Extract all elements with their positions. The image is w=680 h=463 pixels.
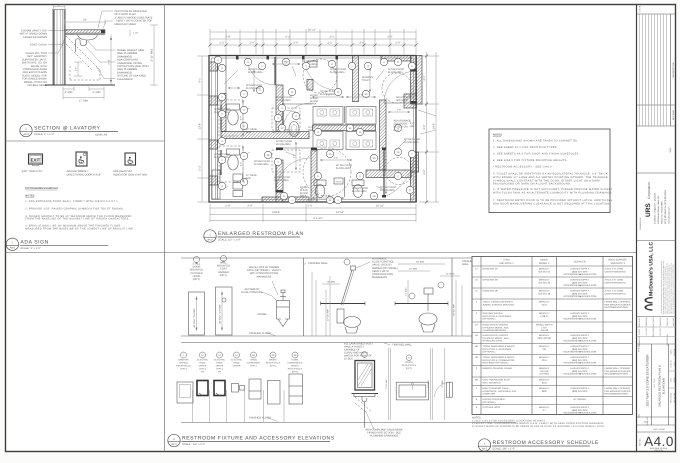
svg-text:O-SITE: O-SITE	[638, 328, 641, 335]
svg-text:ALUMINUM BRUSHED: ALUMINUM BRUSHED	[483, 329, 507, 332]
svg-text:DRYER: DRYER	[199, 365, 207, 368]
svg-text:BRADLEY: BRADLEY	[539, 334, 550, 337]
svg-text:42" GRAB: 42" GRAB	[246, 174, 257, 177]
extra bubbles	[214, 56, 221, 63]
svg-text:FLOOR AREA: FLOOR AREA	[388, 71, 403, 74]
svg-text:(848) 216-3376: (848) 216-3376	[572, 390, 588, 393]
svg-text:13'-8": 13'-8"	[199, 123, 202, 130]
svg-text:DISPENSER &: DISPENSER &	[288, 362, 303, 365]
svg-text:• RESTROOM ACCESSORY - SEE 2/A: • RESTROOM ACCESSORY - SEE 2/A4.0	[493, 166, 552, 169]
svg-text:SEAL: SEAL	[669, 147, 672, 153]
svg-text:FLOOR AREA: FLOOR AREA	[404, 141, 419, 144]
svg-text:10'-11": 10'-11"	[376, 205, 384, 208]
band2 floor line	[181, 422, 516, 424]
band2 ceiling line	[181, 342, 630, 344]
svg-text:33"-36" AFF: 33"-36" AFF	[453, 303, 456, 315]
svg-text:GRAB BAR 18": GRAB BAR 18"	[483, 289, 499, 292]
svg-text:DESCRIPTION: DESCRIPTION	[672, 62, 675, 77]
svg-text:SANITARY: SANITARY	[178, 359, 189, 362]
band1 toilet dims	[329, 276, 331, 336]
toilet side elevation	[321, 303, 366, 305]
svg-text:(OPT.): (OPT.)	[199, 368, 206, 371]
svg-text:2"X1/4 2'-6" LONG: 2"X1/4 2'-6" LONG	[605, 278, 624, 281]
svg-text:FRAME WALL OPENING: FRAME WALL OPENING	[605, 300, 631, 303]
svg-text:PREPARED BY: PREPARED BY	[639, 217, 642, 230]
svg-text:A1.0: A1.0	[394, 129, 400, 132]
svg-text:MANAGERS: MANAGERS	[372, 276, 387, 279]
svg-text:HC/TD: HC/TD	[336, 180, 342, 183]
svg-text:16 1/2": 16 1/2"	[308, 126, 315, 129]
svg-text:2"X1/4 2'-6" LONG: 2"X1/4 2'-6" LONG	[605, 289, 624, 292]
svg-text:ELECTRIC: ELECTRIC	[214, 359, 225, 362]
detail 1: enlarged restroom plan	[197, 29, 439, 243]
svg-text:812-001-36: 812-001-36	[538, 281, 550, 284]
section/ada divider	[5, 140, 165, 142]
wall vertical right of lavs	[380, 100, 387, 170]
waste receptacle label	[406, 355, 412, 361]
lavatory counter south 2	[346, 132, 376, 150]
svg-text:FLOOR AREA: FLOOR AREA	[274, 179, 289, 182]
ada indicator sign	[125, 153, 136, 165]
svg-text:FLOOR AREA: FLOOR AREA	[330, 71, 345, 74]
band1 ceiling line	[181, 257, 630, 259]
svg-text:EFFICIENT MODEL, ADA,: EFFICIENT MODEL, ADA,	[483, 326, 510, 329]
svg-text:TOILET TISSUE DISPENSER,: TOILET TISSUE DISPENSER,	[483, 300, 514, 303]
svg-text:SECTION @ LAVATORY: SECTION @ LAVATORY	[34, 126, 100, 132]
svg-text:BRADLEY: BRADLEY	[539, 289, 550, 292]
svg-text:3'-1": 3'-1"	[329, 36, 334, 39]
svg-text:2"X1/4 2'-6" LONG: 2"X1/4 2'-6" LONG	[605, 267, 624, 270]
svg-text:TOWEL: TOWEL	[291, 359, 300, 362]
exit sign	[29, 154, 43, 164]
svg-text:4A: 4A	[475, 334, 478, 337]
plan notes box	[489, 129, 613, 213]
svg-text:2'-8": 2'-8"	[334, 157, 339, 160]
svg-text:DRYER: DRYER	[216, 365, 224, 368]
toilet bottom 1	[314, 180, 326, 186]
wall vertical stall left upper	[276, 85, 283, 132]
dashed clear rect left top	[219, 100, 243, 136]
svg-text:FINISHED FLOOR: FINISHED FLOOR	[249, 332, 271, 335]
schedule row item 11	[472, 276, 633, 278]
svg-text:AREA: AREA	[300, 195, 307, 198]
svg-text:INDICATOR SIGN 6"X6" MIN: INDICATOR SIGN 6"X6" MIN	[113, 173, 147, 176]
svg-text:TOWEL DISPENSER & WASTE: TOWEL DISPENSER & WASTE	[483, 345, 516, 348]
svg-text:RECEPTACLE, RECESSED: RECEPTACLE, RECESSED	[483, 315, 512, 318]
svg-text:FLOOR AREA: FLOOR AREA	[352, 190, 367, 193]
svg-text:2'-2": 2'-2"	[219, 42, 224, 45]
band2 accessory group	[181, 352, 187, 358]
svg-text:AND NOTE 3: AND NOTE 3	[611, 262, 626, 265]
svg-text:(848) 216-3376: (848) 216-3376	[572, 348, 588, 351]
svg-text:(24"X36"): (24"X36")	[539, 373, 549, 376]
detail 2: restroom accessory schedule	[472, 257, 633, 452]
svg-text:MODEL #: MODEL #	[539, 262, 550, 265]
svg-text:BRADLEY: BRADLEY	[539, 378, 550, 381]
svg-text:NEW PROJ: NEW PROJ	[652, 327, 655, 337]
svg-text:2'-6": 2'-6"	[395, 42, 400, 45]
svg-text:FINISHED WALL: FINISHED WALL	[392, 344, 412, 347]
svg-text:4'-1": 4'-1"	[423, 75, 426, 80]
top dim 6 inch	[53, 6, 65, 8]
svg-text:NOTES: NOTES	[493, 134, 502, 137]
stall door clothes hook elevation	[194, 257, 200, 263]
svg-text:3'-0": 3'-0"	[383, 174, 386, 179]
svg-text:9632: 9632	[542, 390, 548, 393]
left wall inner face	[215, 56, 217, 199]
svg-text:COAT HOOK/DOOR STOP,: COAT HOOK/DOOR STOP,	[483, 378, 511, 381]
title section @ lavatory	[20, 124, 118, 136]
svg-text:A4.0: A4.0	[23, 133, 29, 136]
svg-text:HAND DRYER, ENERGY: HAND DRYER, ENERGY	[483, 334, 509, 337]
svg-text:A40.DWG: A40.DWG	[672, 317, 675, 326]
plan keynote bubbles	[218, 64, 225, 71]
svg-text:URINAL: URINAL	[257, 313, 267, 316]
svg-text:PLUMBING DRAWINGS: PLUMBING DRAWINGS	[370, 435, 399, 438]
svg-text:BY OWNER: BY OWNER	[574, 398, 587, 401]
svg-text:HUGHES SUPPLY: HUGHES SUPPLY	[570, 289, 589, 292]
svg-text:2'-8": 2'-8"	[326, 94, 331, 97]
svg-text:FLOOR AREA: FLOOR AREA	[276, 99, 291, 102]
svg-text:812-001-42: 812-001-42	[538, 270, 550, 273]
svg-text:(848) 216-3376: (848) 216-3376	[572, 359, 588, 362]
svg-text:JUMBO, SURFACE MOUNTED: JUMBO, SURFACE MOUNTED	[483, 303, 515, 306]
svg-text:Clifton, NJ 07013-3888: Clifton, NJ 07013-3888	[661, 201, 664, 224]
door arc bottom-left	[283, 103, 310, 130]
svg-text:1. ADA ENTRANCE DOOR SHALL CO: 1. ADA ENTRANCE DOOR SHALL COMPLY WITH 1…	[25, 200, 118, 203]
door jamb marks	[236, 56, 239, 60]
svg-text:DIAPER CONTAINER: DIAPER CONTAINER	[483, 398, 505, 401]
svg-text:(OPT.): (OPT.)	[193, 278, 201, 281]
ada knee clearance dashed	[66, 36, 100, 70]
svg-text:42" MIN: 42" MIN	[409, 268, 417, 271]
title enlarged restroom plan	[204, 230, 304, 242]
svg-text:A4.0: A4.0	[644, 434, 674, 449]
svg-text:(OPT.): (OPT.)	[292, 371, 299, 374]
band2 dims between accessories	[192, 390, 194, 422]
svg-text:HAND: HAND	[216, 362, 223, 365]
svg-text:Corporation: Corporation	[647, 182, 651, 199]
wall hatch central band right	[313, 125, 376, 131]
svg-text:HAND: HAND	[199, 362, 206, 365]
leader lines	[224, 70, 238, 84]
svg-text:60" DIA CLEAR: 60" DIA CLEAR	[336, 164, 352, 167]
svg-text:A4.0: A4.0	[482, 447, 488, 450]
waste receptacle recessed box	[396, 382, 428, 400]
svg-text:PICTOGRAMS EXAMPLES: PICTOGRAMS EXAMPLES	[25, 187, 58, 190]
svg-text:FLOOR: FLOOR	[300, 192, 308, 195]
svg-text:(OPT.): (OPT.)	[216, 368, 223, 371]
svg-text:2'-8": 2'-8"	[225, 205, 230, 208]
svg-text:ENLARGED RESTROOM PLAN: ENLARGED RESTROOM PLAN	[218, 231, 304, 237]
svg-text:PER MANUFACTURER'S: PER MANUFACTURER'S	[605, 370, 631, 373]
svg-text:3'-2": 3'-2"	[423, 124, 426, 129]
svg-text:2. PROVIDE 1/32" RAISED GRAPH: 2. PROVIDE 1/32" RAISED GRAPHIC SYMBOLS …	[25, 208, 124, 211]
svg-text:MIRROR, CHANNEL FRAME: MIRROR, CHANNEL FRAME	[483, 367, 513, 370]
svg-text:ACCESSORIES■HUGHES.COM: ACCESSORIES■HUGHES.COM	[563, 295, 596, 298]
toilet center room	[289, 122, 299, 137]
svg-text:SITE NO.: SITE NO.	[638, 343, 641, 352]
svg-text:BRADLEY: BRADLEY	[539, 367, 550, 370]
toilet left 2	[227, 149, 240, 155]
svg-text:RESTROOM FIXTURE AND ACCESS: RESTROOM FIXTURE AND ACCESSORY ELEVATION…	[182, 436, 335, 442]
svg-text:42" GRAB: 42" GRAB	[246, 128, 257, 131]
bottom dims	[63, 88, 74, 90]
revision table	[637, 13, 677, 15]
svg-text:FINISHED FLOOR: FINISHED FLOOR	[249, 417, 271, 420]
svg-text:10-01-16: 10-01-16	[670, 360, 673, 367]
svg-text:CAD FILE: CAD FILE	[666, 317, 669, 326]
wall hatch right	[411, 56, 417, 105]
dashed circle top-center	[303, 59, 337, 93]
svg-text:18"X48"CLEAR: 18"X48"CLEAR	[330, 68, 346, 71]
svg-text:24": 24"	[83, 19, 87, 22]
svg-text:1'-9": 1'-9"	[397, 109, 402, 112]
svg-text:5424: 5424	[542, 303, 548, 306]
schedule row item 10	[472, 287, 633, 289]
svg-text:WASTE: WASTE	[291, 365, 299, 368]
wall vertical top center	[353, 56, 359, 102]
svg-text:HAND: HAND	[233, 362, 240, 365]
hand dryer M dark box	[214, 381, 225, 396]
svg-text:27" MIN: 27" MIN	[441, 380, 444, 388]
svg-text:HORIZONTAL, RECESSED, ADA: HORIZONTAL, RECESSED, ADA	[483, 390, 517, 393]
band1 divider wall line	[303, 258, 305, 336]
svg-text:CENTER MOUNTED: CENTER MOUNTED	[605, 292, 627, 295]
dashed circle bottom-right	[386, 158, 413, 185]
svg-text:FLOOR: FLOOR	[310, 100, 318, 103]
svg-text:011-0137: 011-0137	[659, 328, 662, 335]
ada entrance sign	[76, 152, 87, 166]
band1 right toilet elevation	[395, 303, 448, 305]
svg-text:TOWEL DISPENSER & WASTE: TOWEL DISPENSER & WASTE	[483, 356, 516, 359]
schedule row item 4B	[472, 354, 633, 356]
svg-text:McDonald's USA, LLC: McDonald's USA, LLC	[649, 241, 655, 296]
svg-text:MEASURED FROM THE BASELINE OF: MEASURED FROM THE BASELINE OF THE LOWEST…	[25, 228, 134, 231]
schedule row item 2	[472, 310, 633, 312]
svg-text:3) VERIFY BACK-UP SUPPORTS BET: 3) VERIFY BACK-UP SUPPORTS BETWEEN STUDS…	[472, 425, 605, 428]
tissue dispenser box	[334, 178, 343, 184]
svg-text:SUPPLIER: SUPPLIER	[574, 261, 586, 264]
schedule row item 7	[472, 396, 633, 398]
svg-text:EDGES AS SHOWN: EDGES AS SHOWN	[23, 36, 47, 39]
svg-text:M-SITE: M-SITE	[639, 5, 642, 12]
svg-text:ACCESSORIES■HUGHES.COM: ACCESSORIES■HUGHES.COM	[563, 284, 596, 287]
vestibule casework	[233, 174, 243, 181]
hand dryer W dark box	[197, 381, 208, 396]
svg-text:HUGHES SUPPLY: HUGHES SUPPLY	[570, 267, 589, 270]
svg-text:CENTER MOUNTED: CENTER MOUNTED	[605, 281, 627, 284]
svg-text:(848) 216-3376: (848) 216-3376	[572, 281, 588, 284]
svg-text:BAR: BAR	[246, 177, 251, 180]
svg-text:MANUFACTURER: MANUFACTURER	[115, 23, 137, 26]
svg-text:“EXIT” SIGN 6"X6": “EXIT” SIGN 6"X6"	[21, 170, 43, 173]
svg-text:1'-6": 1'-6"	[75, 67, 78, 71]
svg-text:MIN: MIN	[410, 125, 415, 128]
svg-text:WASTE: WASTE	[405, 361, 413, 364]
svg-text:REV DATE: REV DATE	[672, 109, 675, 120]
dashed circle bottom-center	[303, 148, 351, 196]
svg-text:4'-0": 4'-0"	[240, 116, 243, 121]
svg-text:FLOOR AREA: FLOOR AREA	[248, 71, 263, 74]
wall mid right band	[366, 170, 411, 178]
svg-text:4" MIN: 4" MIN	[65, 91, 73, 94]
svg-text:30"X48"CLEAR: 30"X48"CLEAR	[380, 186, 396, 189]
plan bottom dimension lines	[210, 207, 416, 209]
plan outer walls	[209, 56, 416, 203]
svg-text:2'-10" AFF: 2'-10" AFF	[385, 379, 388, 389]
svg-text:architects - engineers - plann: architects - engineers - planners	[654, 192, 657, 224]
towel dispenser	[249, 379, 261, 399]
schedule row item 6B	[472, 385, 633, 387]
svg-text:HUGHES SUPPLY: HUGHES SUPPLY	[570, 387, 589, 390]
svg-text:ACCESSORIES■HUGHES.COM: ACCESSORIES■HUGHES.COM	[563, 273, 596, 276]
svg-text:FLOOR AREA: FLOOR AREA	[254, 163, 269, 166]
wall studs	[52, 10, 54, 85]
svg-text:(OPTIONAL): (OPTIONAL)	[483, 401, 496, 404]
svg-text:MCD: MCD	[644, 421, 649, 424]
svg-text:(OPTIONAL): (OPTIONAL)	[483, 351, 496, 354]
svg-text:SHT. NO.: SHT. NO.	[639, 438, 642, 446]
svg-text:RECEPTACLE: RECEPTACLE	[402, 364, 417, 367]
svg-text:HUGHES SUPPLY: HUGHES SUPPLY	[570, 334, 589, 337]
band1 floor line	[181, 335, 630, 337]
door arc bottom-left room	[276, 158, 310, 192]
schedule row item 9	[472, 414, 633, 416]
right wall hatch pocket	[411, 152, 419, 172]
svg-text:www.urscorp.com: www.urscorp.com	[668, 207, 671, 224]
svg-text:4A: 4A	[475, 324, 478, 327]
svg-text:17" MIN: 17" MIN	[79, 99, 88, 102]
door swing symbol right	[435, 383, 447, 397]
flush arm	[341, 270, 352, 305]
svg-text:SANITARY NAPKIN: SANITARY NAPKIN	[483, 312, 503, 315]
svg-text:--: --	[544, 399, 546, 401]
lavatory counter south 1	[313, 132, 343, 150]
left wall hatch pockets	[209, 62, 218, 71]
svg-text:NOTES:: NOTES:	[25, 194, 35, 197]
svg-text:FLOOR AREA: FLOOR AREA	[336, 167, 351, 170]
svg-text:4738-15: 4738-15	[540, 315, 549, 318]
p-trap	[76, 39, 87, 47]
wall vertical center lower	[311, 150, 317, 202]
schedule row item 5	[472, 376, 633, 378]
svg-text:RECEPTACLE: RECEPTACLE	[176, 365, 191, 368]
svg-text:2017 WAP 2.0 CORE 18 EXTE: 2017 WAP 2.0 CORE 18 EXTERIOR	[646, 354, 650, 407]
svg-text:WITH FLUSH TANK AS AN ALTERNAT: WITH FLUSH TANK AS AN ALTERNATE COMMODIT…	[493, 191, 613, 194]
svg-text:2'-1": 2'-1"	[327, 42, 332, 45]
door arc top-center	[304, 57, 337, 90]
svg-text:DOUBLE SIDED: DOUBLE SIDED	[28, 84, 47, 87]
dashed circle right	[382, 73, 412, 103]
svg-text:30"X48"CLEAR: 30"X48"CLEAR	[388, 68, 404, 71]
svg-text:10/06/2016: 10/06/2016	[645, 318, 648, 327]
svg-text:GRAB BAR 36": GRAB BAR 36"	[483, 278, 499, 281]
wall hatch top right segment	[381, 56, 411, 62]
lavatory counter 1	[313, 107, 343, 125]
svg-text:4'-2": 4'-2"	[423, 169, 426, 174]
svg-text:4B: 4B	[475, 356, 478, 359]
small approval boxes	[637, 316, 677, 318]
title fixture elevations	[168, 434, 335, 446]
towel disp + waste combo	[289, 374, 303, 404]
dim 24in above counter	[65, 21, 105, 23]
door arc top-left	[247, 57, 275, 85]
svg-text:ACCESSORIES■HUGHES.COM: ACCESSORIES■HUGHES.COM	[563, 412, 596, 415]
svg-text:HUGHES SUPPLY: HUGHES SUPPLY	[570, 312, 589, 315]
pilaster center top	[307, 80, 313, 91]
plan top dimension lines	[210, 31, 416, 33]
schedule row item 11	[472, 298, 633, 300]
svg-text:A1040_A4: A1040_A4	[95, 134, 108, 137]
svg-text:SCALE - 1/2" = 1'-0": SCALE - 1/2" = 1'-0"	[182, 443, 206, 446]
wall top-right corner return	[417, 56, 423, 105]
svg-text:3. SEE SHEETS A6.3 FOR DOOR AN: 3. SEE SHEETS A6.3 FOR DOOR AND FINISH S…	[493, 153, 580, 156]
title block strip	[637, 5, 677, 452]
svg-text:(OPTIONAL): (OPTIONAL)	[483, 318, 496, 321]
wall hatch bottom center	[262, 197, 309, 202]
svg-text:L/C-1261: L/C-1261	[645, 328, 648, 335]
svg-text:WALL: WALL	[462, 263, 470, 266]
svg-text:6'-0": 6'-0"	[410, 122, 415, 125]
svg-text:GRAB BAR 42": GRAB BAR 42"	[483, 267, 499, 270]
svg-text:SHT. TITLE: SHT. TITLE	[653, 378, 656, 388]
svg-text:2'-8": 2'-8"	[326, 195, 331, 198]
svg-text:TOILET: TOILET	[362, 79, 371, 82]
plan side dimension lines	[201, 56, 203, 202]
svg-text:HUGHES SUPPLY: HUGHES SUPPLY	[570, 345, 589, 348]
svg-text:(848) 216-3376: (848) 216-3376	[572, 315, 588, 318]
svg-text:6" MIN: 6" MIN	[93, 91, 101, 94]
svg-text:BACKGROUND OR DARK ON A LIGHT: BACKGROUND OR DARK ON A LIGHT BACKGROUND…	[493, 183, 571, 186]
svg-text:HUGHES SUPPLY: HUGHES SUPPLY	[570, 406, 589, 409]
svg-text:RECOMMENDATIONS: RECOMMENDATIONS	[605, 306, 629, 309]
svg-text:(848) 216-3376: (848) 216-3376	[572, 270, 588, 273]
detail 3: section @ lavatory	[20, 4, 158, 137]
dim riser mid	[110, 35, 112, 85]
svg-text:DATE BUILT: DATE BUILT	[638, 316, 641, 327]
svg-text:12" MAX: 12" MAX	[446, 273, 455, 276]
svg-text:2'-11" MAX: 2'-11" MAX	[151, 48, 154, 61]
svg-text:AND NOTE 2: AND NOTE 2	[499, 262, 514, 265]
door arc right	[384, 71, 416, 103]
svg-text:54" MIN: 54" MIN	[416, 261, 424, 264]
svg-text:ADA SIGN: ADA SIGN	[20, 240, 48, 246]
svg-text:VERSION: VERSION	[654, 449, 664, 452]
svg-text:2251: 2251	[542, 359, 548, 362]
svg-text:EFFICIENT MODEL, ADA,: EFFICIENT MODEL, ADA,	[483, 337, 510, 340]
svg-text:4'-6 1/2": 4'-6 1/2"	[313, 217, 323, 220]
svg-text:BRADLEY: BRADLEY	[539, 278, 550, 281]
svg-text:(OPT.): (OPT.)	[250, 365, 257, 368]
svg-text:CENTER MOUNTED: CENTER MOUNTED	[605, 270, 627, 273]
svg-text:FLOOR AREA: FLOOR AREA	[246, 87, 261, 90]
svg-text:MCD-VCOM: MCD-VCOM	[653, 428, 665, 431]
svg-text:BRADLEY: BRADLEY	[539, 406, 550, 409]
seal box	[637, 172, 677, 174]
svg-text:CLEARANCE: CLEARANCE	[117, 78, 133, 81]
svg-text:SEE NOTE: SEE NOTE	[396, 99, 408, 102]
svg-text:2'-6": 2'-6"	[249, 42, 254, 45]
svg-text:ENLARGED RESTROOM PLAN &: ENLARGED RESTROOM PLAN &	[659, 365, 662, 407]
svg-text:APPR: APPR	[673, 377, 676, 383]
svg-text:URS: URS	[645, 203, 652, 217]
svg-text:4B: 4B	[475, 345, 478, 348]
detail 5: ada sign	[6, 152, 147, 251]
svg-text:FLOOR AREA: FLOOR AREA	[276, 143, 291, 146]
svg-text:NAPKIN: NAPKIN	[179, 362, 188, 365]
svg-text:L-977: L-977	[541, 326, 548, 329]
